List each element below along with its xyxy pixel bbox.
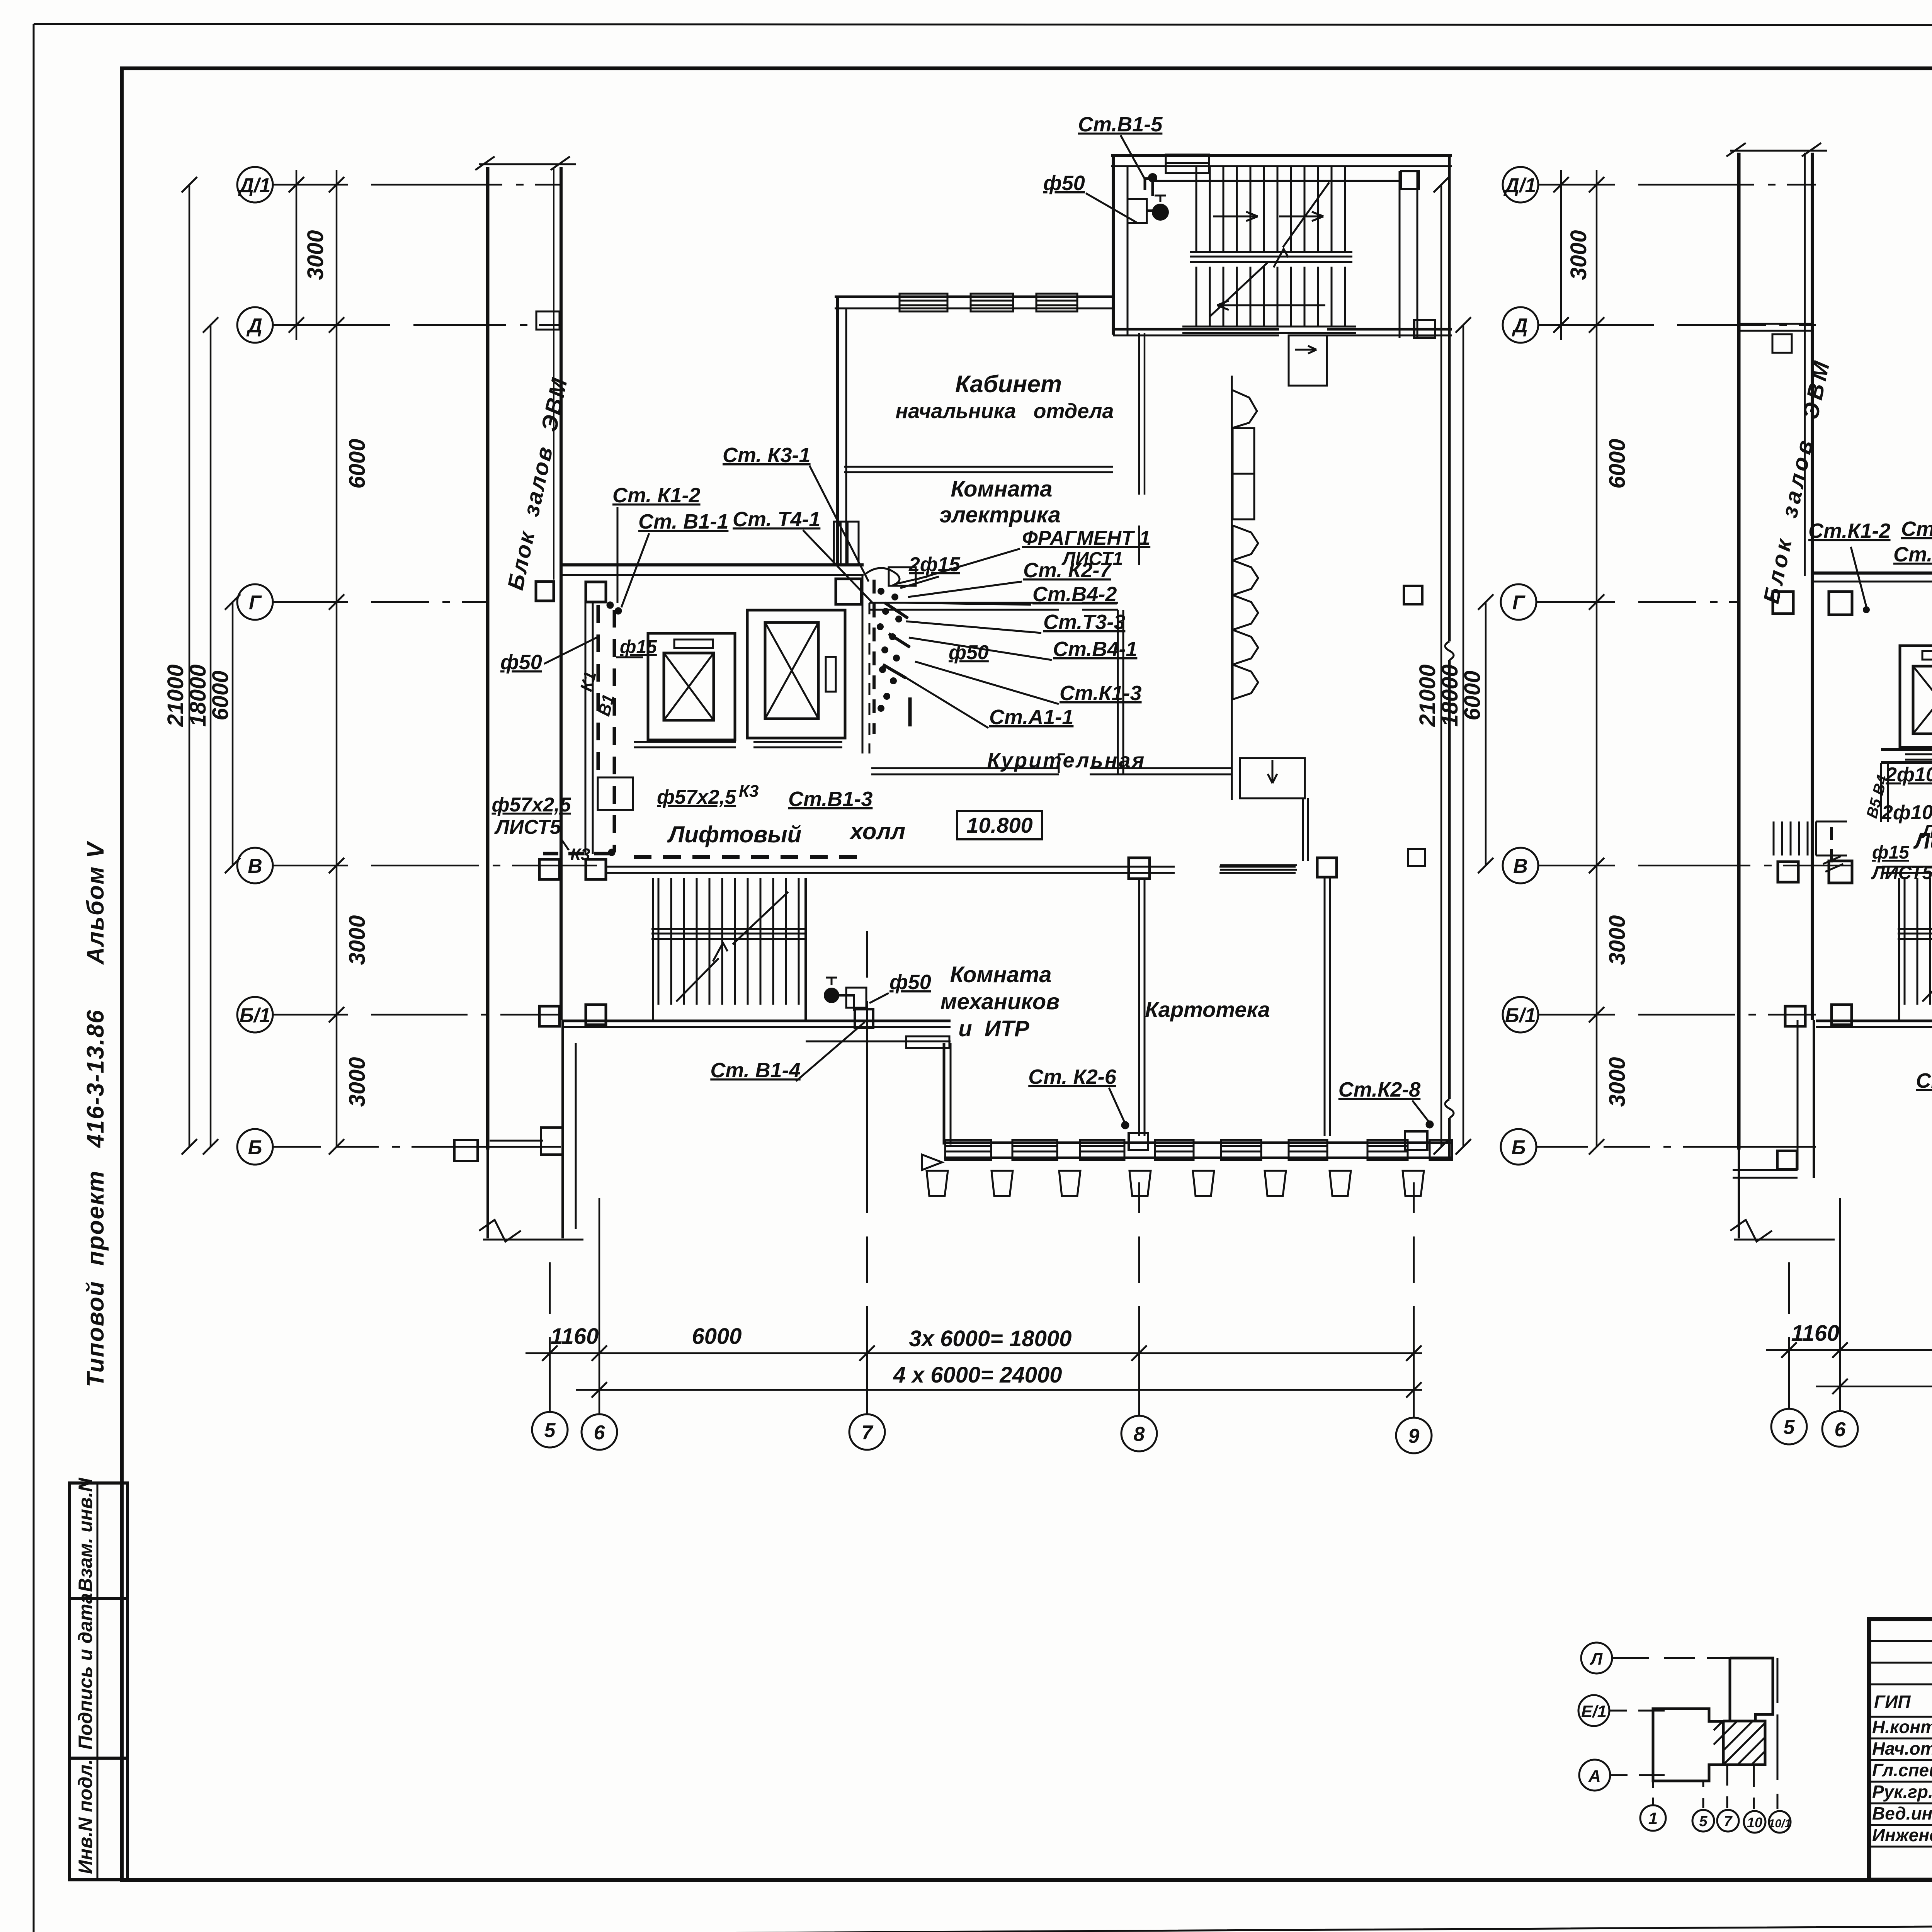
svg-text:Лифтовый: Лифтовый	[1913, 828, 1932, 854]
svg-text:Ст.К1-3: Ст.К1-3	[1060, 682, 1142, 705]
svg-text:Ст. В1-4: Ст. В1-4	[710, 1059, 800, 1082]
svg-text:Гл.спец.: Гл.спец.	[1872, 1760, 1932, 1780]
bottom-left stair	[651, 878, 806, 1020]
svg-text:Взам. инв.N: Взам. инв.N	[75, 1478, 96, 1592]
svg-text:механиков: механиков	[940, 989, 1060, 1014]
svg-text:Д/1: Д/1	[238, 174, 271, 197]
svg-text:4 х 6000= 24000: 4 х 6000= 24000	[893, 1362, 1062, 1388]
svg-text:3000: 3000	[345, 915, 370, 965]
svg-text:Подпись и дата: Подпись и дата	[75, 1593, 96, 1750]
svg-text:Ст.В1-5: Ст.В1-5	[1078, 113, 1163, 136]
B/1 walls right plan	[1785, 1005, 1932, 1170]
svg-text:3000: 3000	[303, 230, 328, 280]
St V1-5 riser + valve	[1128, 174, 1168, 223]
svg-text:1160: 1160	[551, 1324, 599, 1349]
hatch	[1714, 1721, 1765, 1765]
svg-text:6000: 6000	[692, 1324, 742, 1349]
svg-text:Д: Д	[1512, 315, 1528, 337]
svg-text:18000: 18000	[185, 664, 211, 726]
key plan building outline	[1653, 1658, 1773, 1781]
svg-text:Комната: Комната	[950, 962, 1052, 987]
svg-text:Л: Л	[1590, 1650, 1603, 1668]
svg-text:Б: Б	[1512, 1136, 1526, 1159]
svg-text:ГИП: ГИП	[1874, 1692, 1911, 1712]
key plan axis circles	[1578, 1643, 1791, 1833]
svg-text:Нач.отд.: Нач.отд.	[1872, 1738, 1932, 1759]
svg-text:Ст.Т3-3: Ст.Т3-3	[1043, 611, 1125, 634]
svg-text:Д: Д	[246, 315, 262, 337]
svg-text:Е/1: Е/1	[1581, 1702, 1607, 1721]
top stair block	[1111, 155, 1452, 338]
svg-text:Б: Б	[248, 1136, 262, 1159]
svg-text:электрика: электрика	[939, 502, 1061, 527]
svg-text:3х 6000= 18000: 3х 6000= 18000	[909, 1326, 1072, 1351]
row axis dash-dot lines	[273, 185, 597, 1147]
left plan axis circles (rows)	[237, 167, 273, 1165]
V axis partitions	[539, 858, 1337, 1136]
svg-text:Ст.В1-3: Ст.В1-3	[788, 787, 872, 811]
svg-text:6000: 6000	[1605, 439, 1630, 488]
svg-text:1160: 1160	[1791, 1321, 1840, 1346]
svg-text:Ст.К2-8: Ст.К2-8	[1338, 1078, 1421, 1101]
svg-text:Картотека: Картотека	[1145, 997, 1270, 1022]
tick marks	[182, 177, 344, 1155]
svg-text:18000: 18000	[1437, 664, 1463, 726]
svg-text:Ст.Т3-3: Ст.Т3-3	[1901, 517, 1932, 541]
svg-text:9: 9	[1408, 1425, 1420, 1447]
svg-text:Ст.В1-1: Ст.В1-1	[1893, 543, 1932, 566]
svg-text:ф50: ф50	[889, 971, 931, 994]
svg-text:Комната: Комната	[951, 476, 1053, 502]
svg-text:21000: 21000	[1415, 664, 1440, 727]
svg-text:8: 8	[1134, 1423, 1145, 1446]
svg-text:6: 6	[594, 1422, 605, 1444]
svg-text:Ст. К1-2: Ст. К1-2	[612, 484, 701, 507]
svg-text:Н.контр.: Н.контр.	[1872, 1717, 1932, 1737]
V axis partitions right plan	[1778, 859, 1932, 1142]
svg-text:3000: 3000	[1605, 1057, 1630, 1107]
svg-text:Ст. Т4-1: Ст. Т4-1	[733, 508, 820, 531]
svg-text:6000: 6000	[208, 670, 233, 720]
signature rows	[1872, 1692, 1932, 1845]
svg-text:Ст. К2-7: Ст. К2-7	[1023, 559, 1112, 582]
svg-text:2ф15: 2ф15	[908, 553, 961, 576]
svg-text:ф50: ф50	[949, 641, 989, 664]
svg-text:2ф108х2,8: 2ф108х2,8	[1885, 764, 1932, 786]
svg-text:7: 7	[862, 1422, 874, 1444]
svg-text:ф50: ф50	[500, 651, 542, 674]
svg-text:Ст.К1-2: Ст.К1-2	[1808, 519, 1891, 543]
svg-text:ф50: ф50	[1043, 172, 1085, 195]
svg-text:Г: Г	[249, 592, 262, 614]
bottom axis circles + dims	[532, 1412, 1432, 1453]
svg-text:К3: К3	[739, 782, 759, 801]
svg-text:ЛИСТ5: ЛИСТ5	[494, 816, 561, 838]
svg-text:Б/1: Б/1	[1505, 1004, 1536, 1027]
Kabinet walls	[834, 294, 1145, 565]
svg-text:Лифтовый: Лифтовый	[667, 821, 801, 847]
svg-text:3000: 3000	[1605, 915, 1630, 965]
mains piping bottom of elevators	[1774, 750, 1932, 872]
svg-text:начальника отдела: начальника отдела	[895, 400, 1114, 423]
svg-text:холл: холл	[849, 818, 905, 844]
svg-text:ф15: ф15	[620, 637, 657, 657]
elevator 2	[747, 610, 845, 747]
stair treads top	[1182, 166, 1356, 333]
svg-text:2ф108х2,8: 2ф108х2,8	[1881, 801, 1932, 824]
Б row west wall piece	[454, 1128, 563, 1161]
svg-text:Ст.В4-2: Ст.В4-2	[1032, 583, 1117, 606]
svg-text:5: 5	[1784, 1416, 1795, 1439]
svg-text:1: 1	[1648, 1809, 1658, 1828]
svg-text:Рук.гр.: Рук.гр.	[1872, 1782, 1932, 1802]
svg-text:6: 6	[1835, 1418, 1846, 1441]
east outer wall	[1404, 155, 1454, 1158]
svg-text:К3: К3	[570, 845, 590, 864]
right plan axis circles (rows)	[1501, 167, 1538, 1165]
svg-text:ф15: ф15	[1872, 842, 1910, 863]
svg-text:Ст. В1-4: Ст. В1-4	[1916, 1069, 1932, 1092]
svg-text:Ст. К3-1: Ст. К3-1	[723, 444, 811, 467]
svg-text:5: 5	[544, 1419, 556, 1442]
main title block	[1869, 1619, 1932, 1880]
svg-text:6000: 6000	[1460, 670, 1485, 720]
Г wing: elevator hall north wall	[536, 565, 864, 604]
svg-text:ф57х2,5: ф57х2,5	[657, 786, 736, 808]
svg-text:Инженер: Инженер	[1872, 1825, 1932, 1845]
vertical dimension chains left	[189, 170, 337, 1147]
svg-text:10/1: 10/1	[1769, 1817, 1791, 1830]
svg-text:Блок залов ЭВМ: Блок залов ЭВМ	[1759, 359, 1835, 606]
svg-text:10.800: 10.800	[966, 813, 1032, 837]
svg-text:Вед.инж.: Вед.инж.	[1872, 1803, 1932, 1823]
svg-text:В: В	[248, 855, 262, 878]
elevator 1	[634, 633, 736, 747]
svg-text:7: 7	[1724, 1813, 1733, 1830]
svg-text:Курительная: Курительная	[987, 749, 1146, 772]
east wall of elevator block + riser cluster	[862, 567, 916, 753]
svg-text:5: 5	[1699, 1813, 1708, 1830]
svg-text:ф57х2,5: ф57х2,5	[492, 794, 571, 816]
corridor exit + east features	[1220, 335, 1327, 870]
sidebar stamp boxes left of frame	[70, 1483, 128, 1880]
west wall band right plan	[1726, 143, 1835, 1242]
svg-text:Ст. В1-1: Ст. В1-1	[638, 510, 728, 533]
svg-text:Ст. К2-6: Ст. К2-6	[1028, 1065, 1117, 1088]
svg-text:В: В	[1513, 855, 1528, 878]
svg-text:3000: 3000	[345, 1057, 370, 1107]
svg-text:6000: 6000	[345, 439, 370, 488]
elevator hall west wall + risers	[543, 601, 867, 857]
elevators right plan	[1900, 646, 1932, 760]
svg-text:А: А	[1588, 1767, 1601, 1786]
dim texts rotated	[163, 230, 370, 1107]
svg-text:10: 10	[1747, 1815, 1762, 1830]
elevator hall north wall	[1773, 573, 1932, 615]
bottom-left stair right plan	[1898, 878, 1932, 1020]
svg-text:21000: 21000	[163, 664, 188, 727]
svg-text:Ст.А1-1: Ст.А1-1	[989, 706, 1073, 729]
svg-text:Б/1: Б/1	[240, 1004, 270, 1027]
svg-text:Г: Г	[1512, 592, 1526, 614]
svg-text:Типовой проект 416-3-13.86: Типовой проект 416-3-13.86 Альбом V	[82, 840, 109, 1387]
svg-text:и ИТР: и ИТР	[958, 1016, 1029, 1041]
f50 valve near stair right plan (lower)	[0, 0, 1, 1]
svg-text:Кабинет: Кабинет	[955, 371, 1062, 398]
svg-text:Ст.В4-1: Ст.В4-1	[1053, 638, 1137, 661]
svg-text:ФРАГМЕНТ 1: ФРАГМЕНТ 1	[1022, 527, 1150, 549]
west wall band (Блок залов ЭВМ)	[475, 156, 583, 1242]
south facade Б	[927, 1121, 1452, 1196]
svg-text:Д/1: Д/1	[1503, 174, 1536, 197]
Б row west wall piece right plan	[1733, 1151, 1798, 1178]
B/1 walls	[539, 1005, 951, 1170]
svg-text:Инв.N подл.: Инв.N подл.	[75, 1759, 96, 1874]
svg-text:3000: 3000	[1566, 230, 1591, 280]
Kuritelnaya enclosure	[869, 603, 1231, 774]
St V1-4 valve	[825, 978, 873, 1028]
